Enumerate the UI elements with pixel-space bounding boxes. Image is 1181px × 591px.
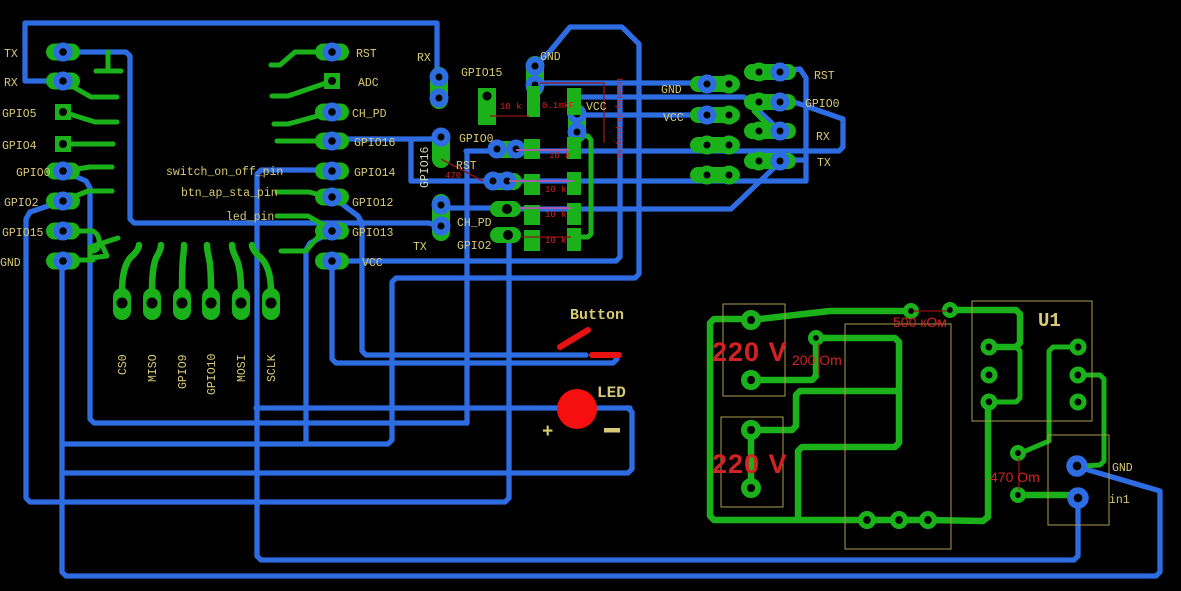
wire ADC stub [272,81,332,96]
pad RST right column [315,44,349,61]
pad GPIO9 flash [173,245,191,320]
svg-text:GPIO13: GPIO13 [352,227,394,240]
svg-text:220 V: 220 V [712,337,788,367]
svg-text:GPIO12: GPIO12 [352,197,394,210]
svg-text:GPIO9: GPIO9 [177,354,190,389]
svg-text:GPIO10: GPIO10 [206,353,219,395]
pad connector row3 row [690,137,740,153]
pad connector RST row [744,64,796,80]
svg-text:switch_on_off_pin: switch_on_off_pin [166,166,283,179]
svg-text:GPIO16: GPIO16 [419,146,432,188]
pad ADC square [324,73,340,89]
svg-text:10 k: 10 k [545,185,567,195]
svg-text:GPIO5: GPIO5 [2,108,37,121]
wire U1 pin2R to GND pad [1078,375,1104,466]
wire TX donut stub to x806 [783,157,806,162]
wire relay pads to U1 downlink [928,404,988,521]
pad GND left module [46,253,80,270]
pad RST middle pair [484,173,522,190]
pad VCC middle pair [568,104,586,143]
switch Button symbol [560,330,619,355]
wire GPIO0 left down [63,171,467,423]
wire RST row y181 [411,178,806,183]
op-amp U1 pads [983,341,1084,408]
wire RX left stub [63,81,117,97]
svg-text:TX: TX [4,48,18,61]
ratsnest 10k row4 [520,207,571,209]
wire GPIO15 stub curl [78,231,99,251]
svg-text:RX: RX [4,77,18,90]
resistor 470Om pads [1013,448,1024,501]
pad MISO flash [143,245,161,320]
svg-text:Button: Button [570,307,624,324]
wire led_pin trace [277,216,329,228]
pad 220V-1 top [744,313,758,327]
wire GPIO2 stub [63,191,112,201]
svg-text:U1: U1 [1038,310,1061,332]
svg-text:10 k: 10 k [545,236,567,246]
svg-text:GPIO14: GPIO14 [354,167,396,180]
svg-text:GND: GND [540,51,561,64]
svg-text:GPIO0: GPIO0 [16,167,51,180]
pad VCC right column [315,253,349,270]
ratsnest 10k row5 [521,236,571,238]
capacitor C1 0.1mkF pads [527,86,581,117]
ratsnest 470 resistor [441,159,483,181]
pad CH_PD right column [315,104,349,121]
pad CS0 flash [113,245,139,320]
svg-text:10 k: 10 k [545,210,567,220]
component outline U1 [972,301,1092,421]
pad GPIO4 square [55,136,71,152]
pad 220V-1 bottom [744,373,758,387]
svg-text:ADC: ADC [358,77,379,90]
pad GPIO0 left module [46,163,80,180]
label minus [604,428,620,433]
wire btn_ap_sta_pin trace [277,192,331,198]
pad GPIO2 resistor row5 [490,227,521,243]
pad SCLK flash [252,245,280,320]
svg-text:GPIO2: GPIO2 [457,240,492,253]
wire VCC mid y115 [577,112,705,117]
svg-text:10 k: 10 k [500,102,522,112]
svg-text:GPIO0: GPIO0 [459,133,494,146]
wire GND left vertical [62,261,1160,576]
wire GPIO16 horizontal [330,136,436,141]
svg-text:TX: TX [413,241,427,254]
svg-text:GND: GND [1112,462,1133,475]
svg-text:CS0: CS0 [117,354,130,375]
svg-text:TX: TX [817,157,831,170]
wire cap to RX diag y97 [581,97,777,128]
wire switch_on_off net [257,170,1078,560]
pad connector TX row [744,153,796,169]
component outline GND/in1 header [1048,435,1109,525]
pad MOSI flash [232,245,250,320]
svg-text:500 кОм: 500 кОм [893,314,947,330]
wire U1 left pins U link [989,347,1020,402]
resistor R-GPIO15 pad rect [478,88,496,125]
wire 500kOm to U1 pin1 [955,310,1020,347]
wire 220V box2 pads link [748,430,755,488]
wire GPIO5 stub [63,112,117,122]
svg-text:470: 470 [445,171,461,181]
wire CH_PD left stub [274,112,332,124]
component outline 220V socket 2 [721,417,783,507]
svg-text:VCC: VCC [362,257,383,270]
wire GPIO0 right connector diag stub [754,111,770,127]
svg-text:CH_PD: CH_PD [352,108,387,121]
svg-text:loading on program: loading on program [614,77,622,159]
pad connector row4 row [690,167,740,183]
wire RST right stub [271,52,332,65]
pad GPIO14 right column [315,163,349,180]
svg-text:470 Om: 470 Om [990,469,1040,485]
svg-text:220 V: 220 V [712,449,788,479]
svg-text:MOSI: MOSI [236,354,249,382]
wire 220V box2 top pad right riser [751,391,899,430]
resistor R5 10k pads [524,228,581,251]
wire 220V box1 lower pad to 200Om [751,342,816,380]
svg-text:GPIO15: GPIO15 [461,67,503,80]
wire 220V feed left loop [710,319,924,520]
svg-text:VCC: VCC [663,112,684,125]
ratsnest 10 k row1 [490,115,529,117]
svg-text:CH_PD: CH_PD [457,217,492,230]
resistor 500kOm pads [906,305,956,317]
resistor R2 10k pads [524,137,581,159]
ratsnest 470Om [1018,458,1020,490]
LED D1 [557,389,597,429]
wire GPIO0 main y151 [466,102,843,151]
wire TX to CH_PD lower [63,52,437,225]
wire 200Om to relay right [798,338,899,517]
resistor 200Om top pad [811,333,822,344]
pad GND relay blue [1070,459,1085,474]
ratsnest 10k row2 [516,149,570,151]
pad in1 relay blue [1071,491,1086,506]
svg-text:+: + [542,421,553,443]
wire GND left stub [78,238,118,260]
pad GPIO16 right column [315,133,349,150]
pad connector RX row [744,123,796,139]
pad 220V-2 top [744,423,758,437]
pad RX left module [46,73,80,90]
wire resistor pad to TX diag y209 [507,165,777,209]
pad GPIO5 square [55,104,71,120]
svg-text:RX: RX [417,52,431,65]
wire 500kOm feed [751,311,906,320]
wire VCC pad to button y363 [332,266,617,363]
svg-text:MISO: MISO [147,354,160,382]
wire GPIO13 chevron [281,237,318,251]
svg-text:10 k: 10 k [549,151,571,161]
svg-text:RX: RX [816,131,830,144]
pad RX middle module pair [430,67,448,109]
wire GND mid y83 [535,80,705,85]
wire LED row y408 [256,405,630,410]
svg-text:200 Om: 200 Om [792,352,842,368]
wire U1 pin1R to 470Om [1023,347,1078,452]
svg-text:RST: RST [356,48,377,61]
pad 220V-2 bottom [744,481,758,495]
svg-text:GPIO0: GPIO0 [805,98,840,111]
pad connector VCC row [690,107,740,123]
ratsnest 200Om [818,343,820,375]
svg-text:LED: LED [597,384,626,402]
relay K1 bottom pads [861,514,935,527]
svg-text:0.1mkF: 0.1mkF [542,101,574,111]
pad CH_PD middle module pair [432,194,450,241]
svg-text:VCC: VCC [586,101,607,114]
pad GPIO16 middle module [432,128,450,168]
wire GPIO13 diag [306,231,334,443]
wire GPIO2 net [26,201,509,502]
wire GPIO16 left stub [277,139,332,144]
svg-text:GPIO4: GPIO4 [2,140,37,153]
ratsnest 500kOm [914,310,947,312]
wire GPIO4 stub [63,142,113,147]
pad CH_PD resistor row4 [490,201,521,217]
resistor R4 10k pads [524,203,581,225]
pad GPIO2 left module [46,193,80,210]
pad GPIO15 left module [46,223,80,240]
wire resistor pullup vertical green [581,136,591,237]
wire GPIO16 drop x411 [408,139,413,181]
ratsnest GND to cap [540,83,604,143]
svg-text:SCLK: SCLK [266,354,279,382]
svg-text:in1: in1 [1109,494,1130,507]
pad connector GND row [690,76,740,92]
svg-text:GND: GND [0,257,21,270]
pad TX left module [46,44,80,61]
antenna T left module [96,52,121,71]
component outline 220V socket 1 [723,304,785,396]
svg-text:GPIO16: GPIO16 [354,137,396,150]
pad GND middle pair [526,56,544,96]
wire GPIO0 stub [63,167,112,171]
wire RST vertical x806 [782,69,806,181]
wire 470Om to in1 [1023,492,1070,499]
ratsnest 10k row3 [509,180,573,182]
svg-text:RST: RST [814,70,835,83]
pad GPIO0 middle pair [488,141,526,158]
component outline relay K1 [845,324,951,549]
pad GPIO12 right column [315,189,349,206]
resistor R3 10k pads [524,172,581,195]
pad GPIO13 right column [315,223,349,240]
svg-text:GPIO15: GPIO15 [2,227,44,240]
wire GND branch y472 LED return [62,408,632,473]
pad connector GPIO0 row [744,94,796,110]
wire net TX-RX top loop [25,23,437,81]
wire GND big loop top shape [62,27,639,444]
wire GPIO0 riser x467 [464,151,469,423]
svg-text:led_pin: led_pin [226,211,274,224]
svg-text:GPIO2: GPIO2 [4,197,39,210]
wire VCC left module y261 [332,83,620,261]
svg-text:GND: GND [661,84,682,97]
svg-text:btn_ap_sta_pin: btn_ap_sta_pin [181,187,278,200]
wire GPIO12 net [334,198,586,355]
pad GPIO10 flash [202,245,220,320]
wire CH_PD to resistor pad y209 [442,205,507,210]
